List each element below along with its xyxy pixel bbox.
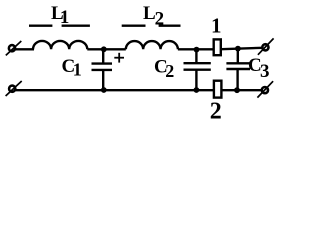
core line L1 left: [29, 25, 52, 27]
node top C3: [235, 46, 241, 52]
capacitor C3: [226, 49, 250, 91]
wire top mid2: [178, 48, 214, 50]
capacitor C1: [92, 49, 113, 90]
component 1 (box): [214, 39, 221, 55]
svg-text:2: 2: [165, 61, 174, 81]
wire bottom-left: [16, 89, 214, 91]
node bottom C1: [101, 87, 107, 93]
node top C1: [101, 46, 107, 52]
terminal input top-left: [6, 41, 21, 55]
inductor L1: [33, 41, 87, 49]
wire top-left: [16, 48, 35, 50]
svg-text:2: 2: [210, 98, 222, 121]
label L1: [51, 3, 69, 28]
capacitor C2: [184, 50, 211, 91]
inductor L2: [126, 41, 178, 49]
label L2: [143, 3, 164, 30]
wire bottom right: [222, 89, 261, 91]
svg-text:1: 1: [60, 7, 70, 28]
terminal output bottom-right: [257, 81, 273, 97]
node bottom C3: [234, 87, 240, 93]
core line L1 right: [62, 25, 90, 27]
terminal input bottom-left: [6, 81, 22, 96]
label C2: [154, 57, 174, 82]
wire top right: [222, 48, 263, 49]
component 2 (box): [214, 81, 222, 98]
node bottom C2: [194, 87, 200, 93]
svg-text:1: 1: [211, 13, 222, 37]
svg-text:1: 1: [73, 60, 82, 80]
label C1: [62, 56, 82, 80]
core line L2 left: [122, 25, 146, 27]
wire top mid1: [87, 48, 126, 50]
core line L2 right: [159, 25, 181, 27]
node top C2: [194, 47, 200, 53]
svg-text:3: 3: [260, 61, 270, 82]
label C3: [248, 55, 270, 82]
svg-text:2: 2: [155, 9, 165, 30]
polarity plus C1: [114, 53, 124, 63]
terminal output top-right: [258, 38, 274, 54]
